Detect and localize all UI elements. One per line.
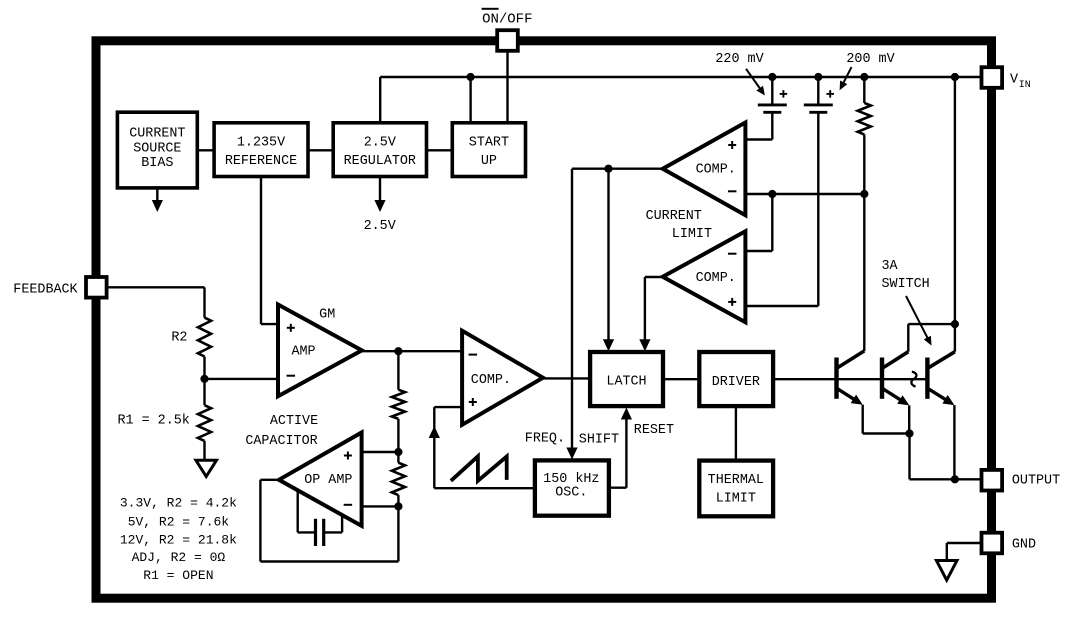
svg-text:2.5V: 2.5V — [364, 135, 396, 150]
svg-text:FEEDBACK: FEEDBACK — [13, 282, 78, 297]
svg-text:SWITCH: SWITCH — [882, 277, 930, 292]
svg-text:DRIVER: DRIVER — [712, 375, 760, 390]
svg-text:AMP: AMP — [291, 344, 315, 359]
svg-text:LIMIT: LIMIT — [716, 492, 756, 507]
svg-text:OP AMP: OP AMP — [304, 473, 352, 488]
svg-text:COMP.: COMP. — [471, 373, 511, 388]
svg-text:COMP.: COMP. — [696, 271, 736, 286]
svg-text:R1 = OPEN: R1 = OPEN — [143, 568, 213, 583]
svg-text:2.5V: 2.5V — [364, 219, 396, 234]
svg-text:220 mV: 220 mV — [715, 52, 763, 67]
svg-text:UP: UP — [481, 154, 497, 169]
svg-text:1.235V: 1.235V — [237, 135, 285, 150]
svg-text:RESET: RESET — [634, 423, 674, 438]
svg-text:LATCH: LATCH — [606, 374, 646, 389]
svg-text:CURRENT: CURRENT — [129, 127, 185, 142]
svg-text:CAPACITOR: CAPACITOR — [245, 434, 317, 449]
svg-text:BIAS: BIAS — [141, 156, 173, 171]
svg-text:LIMIT: LIMIT — [672, 227, 712, 242]
svg-text:START: START — [469, 135, 509, 150]
svg-text:THERMAL: THERMAL — [708, 473, 764, 488]
svg-text:V: V — [1010, 72, 1018, 87]
svg-text:R2: R2 — [171, 330, 187, 345]
svg-text:12V, R2 = 21.8k: 12V, R2 = 21.8k — [120, 532, 237, 547]
svg-text:GND: GND — [1012, 538, 1036, 553]
svg-text:ADJ, R2 = 0Ω: ADJ, R2 = 0Ω — [132, 550, 226, 565]
svg-text:COMP.: COMP. — [696, 162, 736, 177]
svg-text:200 mV: 200 mV — [846, 52, 894, 67]
svg-text:GM: GM — [319, 307, 335, 322]
svg-text:OUTPUT: OUTPUT — [1012, 474, 1060, 489]
svg-text:CURRENT: CURRENT — [646, 209, 702, 224]
svg-text:IN: IN — [1019, 80, 1031, 91]
svg-text:SHIFT: SHIFT — [579, 432, 619, 447]
svg-text:ACTIVE: ACTIVE — [270, 414, 318, 429]
svg-text:R1 = 2.5k: R1 = 2.5k — [118, 414, 190, 429]
svg-text:3.3V, R2 = 4.2k: 3.3V, R2 = 4.2k — [120, 496, 237, 511]
svg-text:3A: 3A — [882, 259, 899, 274]
svg-text:REGULATOR: REGULATOR — [344, 154, 416, 169]
svg-text:REFERENCE: REFERENCE — [225, 154, 297, 169]
svg-text:ON/OFF: ON/OFF — [482, 11, 532, 27]
svg-text:OSC.: OSC. — [555, 485, 587, 500]
svg-text:SOURCE: SOURCE — [133, 141, 181, 156]
svg-text:5V, R2 = 7.6k: 5V, R2 = 7.6k — [128, 514, 230, 529]
svg-text:FREQ.: FREQ. — [525, 431, 565, 446]
